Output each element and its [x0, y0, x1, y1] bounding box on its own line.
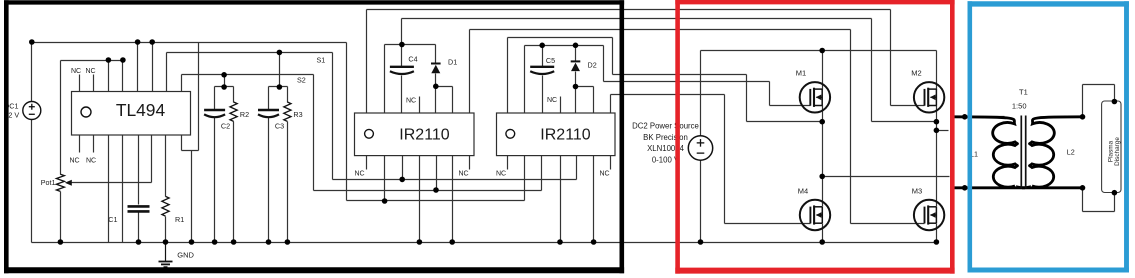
svg-text:R3: R3	[293, 110, 302, 119]
svg-text:L2: L2	[1067, 148, 1075, 157]
svg-text:NC: NC	[599, 170, 609, 177]
svg-text:C4: C4	[408, 55, 417, 64]
svg-text:NC: NC	[69, 158, 79, 165]
svg-text:S1: S1	[317, 56, 326, 65]
svg-text:Discharge: Discharge	[1114, 137, 1121, 166]
svg-text:M2: M2	[911, 69, 921, 78]
svg-text:M3: M3	[912, 187, 922, 196]
svg-text:IR2110: IR2110	[540, 127, 591, 144]
svg-text:DC2 Power Source: DC2 Power Source	[632, 121, 699, 130]
svg-text:C1: C1	[108, 215, 117, 224]
svg-text:NC: NC	[85, 68, 95, 75]
svg-text:Pot1: Pot1	[41, 178, 56, 187]
svg-text:NC: NC	[406, 97, 416, 104]
svg-text:NC: NC	[86, 158, 96, 165]
svg-text:NC: NC	[547, 97, 557, 104]
svg-text:M4: M4	[798, 187, 808, 196]
svg-text:D2: D2	[588, 61, 597, 70]
svg-text:C3: C3	[275, 122, 284, 131]
svg-text:S2: S2	[297, 76, 306, 85]
svg-text:M1: M1	[796, 69, 806, 78]
svg-text:C5: C5	[546, 56, 555, 65]
svg-text:C2: C2	[221, 122, 230, 131]
svg-text:BK Precision: BK Precision	[643, 133, 688, 142]
svg-text:NC: NC	[354, 170, 364, 177]
svg-text:NC: NC	[458, 170, 468, 177]
svg-text:IR2110: IR2110	[399, 127, 450, 144]
svg-text:D1: D1	[448, 58, 457, 67]
svg-text:GND: GND	[177, 251, 194, 260]
svg-text:T1: T1	[1019, 88, 1028, 97]
svg-text:R1: R1	[175, 215, 184, 224]
svg-text:1:50: 1:50	[1012, 101, 1027, 110]
svg-text:NC: NC	[71, 68, 81, 75]
svg-text:R2: R2	[240, 110, 249, 119]
svg-text:TL494: TL494	[116, 100, 166, 120]
svg-text:NC: NC	[496, 170, 506, 177]
